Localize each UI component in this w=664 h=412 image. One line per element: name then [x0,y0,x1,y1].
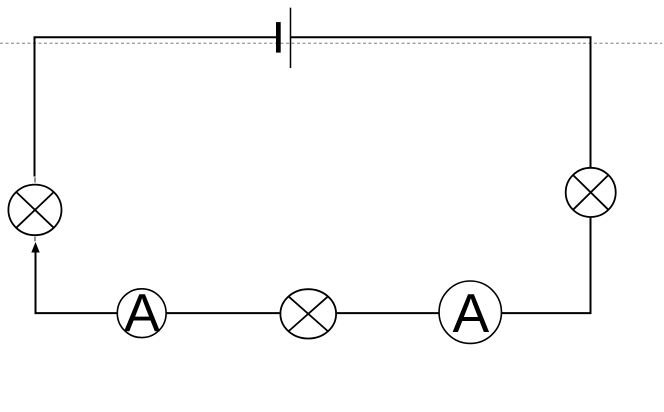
svg-text:A: A [453,282,490,344]
svg-text:A: A [124,283,160,343]
